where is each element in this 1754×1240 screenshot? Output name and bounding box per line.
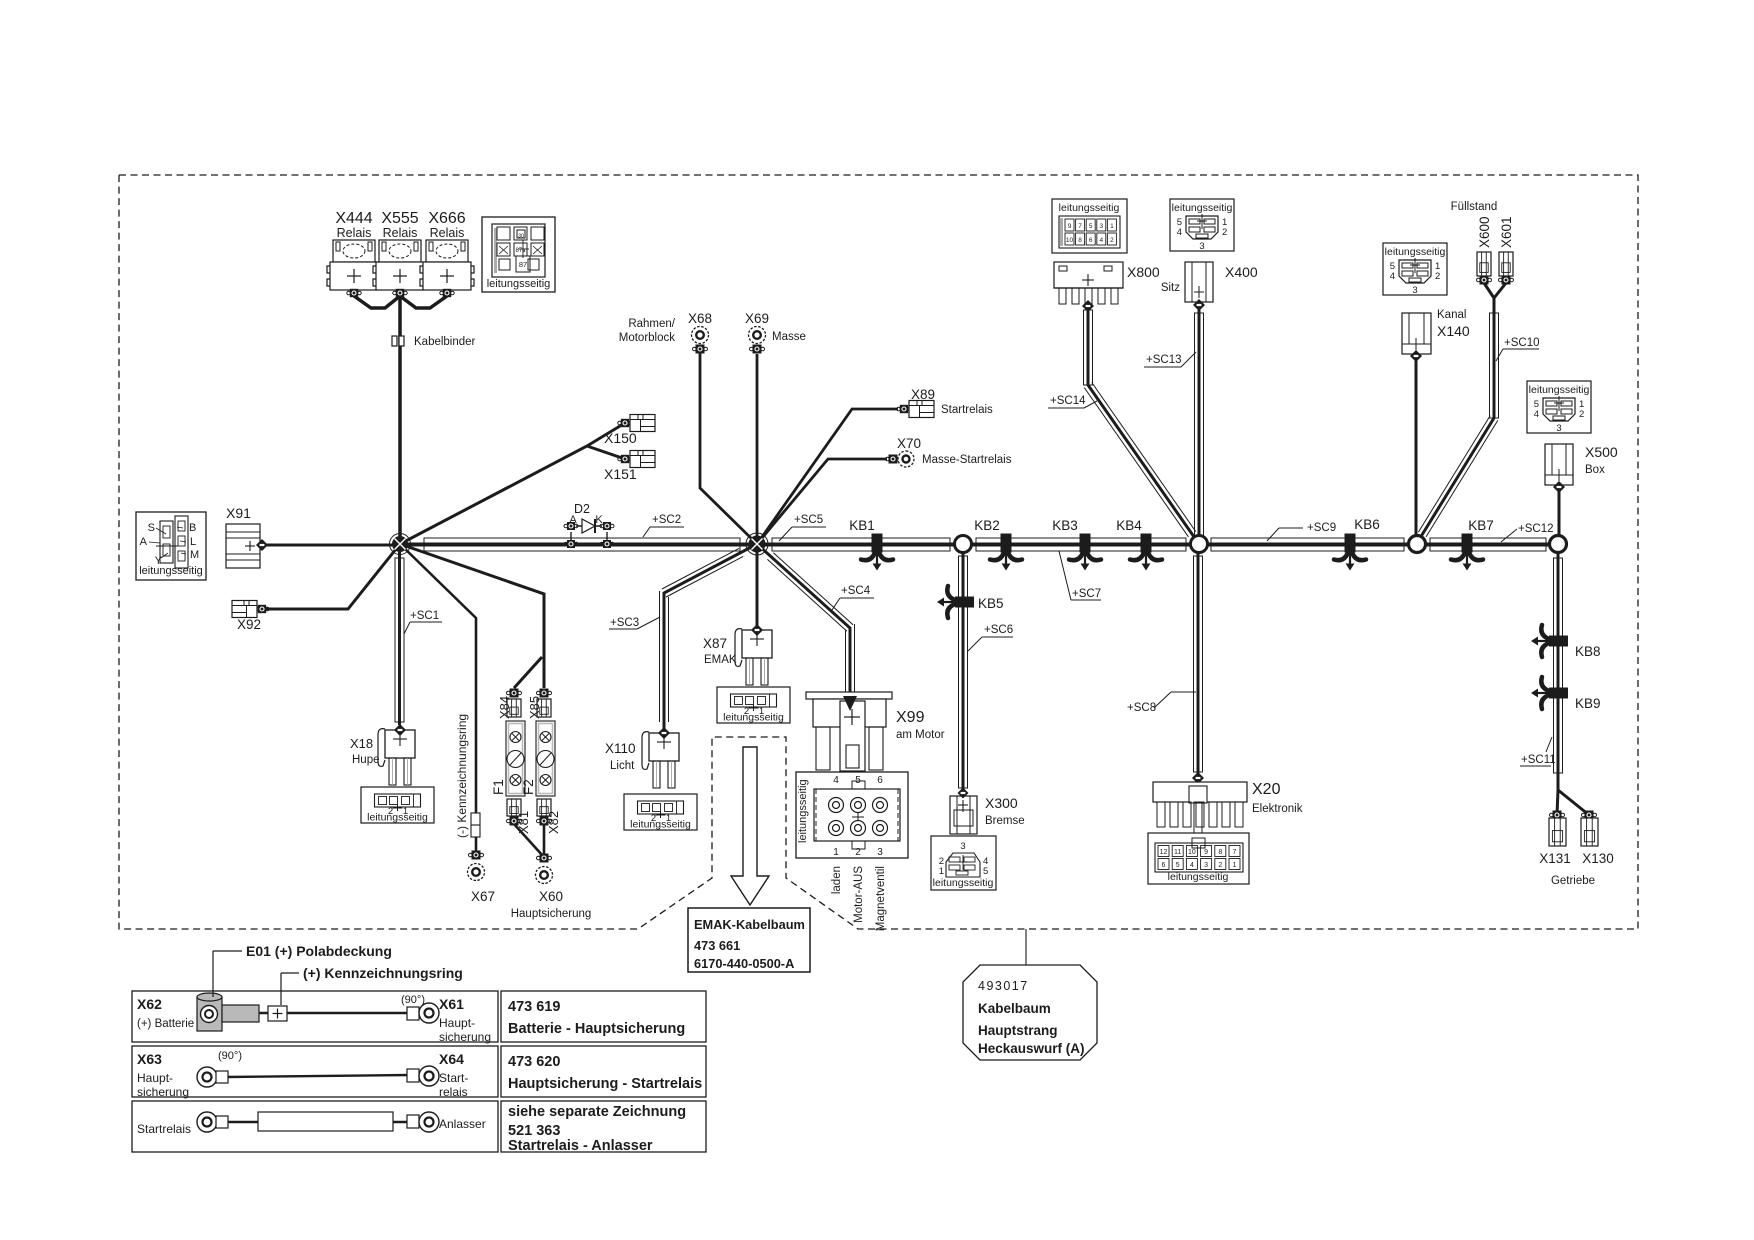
wire hub2 to X87 [756,544,759,626]
svg-text:Relais: Relais [430,226,465,240]
connector X18 Hupe [385,730,415,758]
svg-text:X20: X20 [1252,781,1281,798]
svg-text:X69: X69 [745,311,769,326]
conduit SC14 [1084,310,1093,385]
junction X60 pin [537,854,552,863]
svg-text:Relais: Relais [337,226,372,240]
node hub3 junction [1191,536,1208,553]
connector X150 [618,419,632,427]
connector X82 [537,799,551,816]
svg-text:sicherung: sicherung [439,1030,491,1044]
wire hub2 to X89 [757,409,898,544]
svg-text:6: 6 [877,775,883,786]
svg-text:leitungsseitig: leitungsseitig [1059,202,1120,214]
svg-text:laden: laden [831,866,843,894]
svg-text:L: L [190,536,196,548]
connector X500 Box [1545,444,1573,485]
svg-text:X444: X444 [335,210,372,227]
ring terminal anlasser [407,1115,419,1128]
svg-text:KB4: KB4 [1116,518,1142,533]
connector X300 Bremse [950,796,977,834]
svg-text:+SC12: +SC12 [1518,523,1553,535]
table row1 cable 473 619 [132,991,498,1042]
svg-text:Getriebe: Getriebe [1551,875,1595,887]
svg-text:Box: Box [1585,464,1605,476]
svg-text:1: 1 [1110,223,1114,230]
svg-text:+SC11: +SC11 [1521,754,1556,766]
svg-text:leitungsseitig: leitungsseitig [1385,246,1446,258]
marker Kennzeichnungsring plus [268,1006,287,1021]
conduit outline SC2 segment [424,538,740,551]
cable tie KB4 [1130,534,1162,571]
wire SC14 X800 down [1088,308,1199,544]
connector X85 [537,689,552,698]
node hub5 junction [1550,536,1567,553]
svg-text:KB3: KB3 [1052,518,1078,533]
wire branch to X84 [514,657,542,688]
junction X555 pin [393,289,407,297]
svg-text:X99: X99 [896,709,925,726]
svg-text:11: 11 [1174,849,1181,856]
cable tie KB3 [1069,534,1101,571]
svg-text:6: 6 [1089,237,1093,244]
svg-text:3: 3 [1099,223,1103,230]
conduit SC13 [1195,313,1204,537]
junction D2 anode [564,522,578,530]
pinout box X18 leitungsseitig [361,787,434,823]
pinout box X110 leitungsseitig [624,794,697,830]
svg-text:1: 1 [1233,862,1237,869]
svg-text:4: 4 [1177,227,1182,238]
svg-text:X63: X63 [137,1051,162,1067]
svg-text:X70: X70 [897,436,921,451]
svg-text:X84: X84 [497,696,512,719]
svg-text:+SC4: +SC4 [841,585,871,597]
svg-text:Licht: Licht [610,760,635,772]
wire startrelais to anlasser [228,1121,409,1123]
svg-text:X555: X555 [381,210,418,227]
svg-text:leitungsseitig: leitungsseitig [1529,384,1590,396]
conduit SC1 [395,558,404,722]
svg-text:A: A [140,536,148,548]
conduit SC4 [767,559,847,631]
svg-text:leitungsseitig: leitungsseitig [1172,202,1233,214]
junction X91 pin [256,539,268,551]
svg-text:X400: X400 [1225,264,1258,280]
svg-text:KB6: KB6 [1354,517,1380,532]
connector X81 [507,799,521,816]
svg-text:KB5: KB5 [978,596,1004,611]
svg-text:X600: X600 [1477,216,1492,248]
svg-text:leitungsseitig: leitungsseitig [487,278,551,290]
ring terminal startrelais [197,1112,217,1132]
cable tie KB2 [990,534,1022,571]
conduit outline SC12 segment [1430,538,1546,551]
cable tie KB1 [861,534,893,571]
svg-text:+SC9: +SC9 [1307,522,1336,534]
svg-text:Kabelbinder: Kabelbinder [414,336,476,348]
junction X666 pin [440,289,454,297]
connector X151 [618,455,632,463]
svg-text:2: 2 [1110,237,1114,244]
Kabelbinder marker [392,336,397,346]
wire hub2 to X68 [700,351,757,544]
connector X400 Sitz [1185,262,1213,302]
svg-text:Haupt-: Haupt- [137,1071,173,1085]
svg-text:30: 30 [518,234,524,240]
svg-text:X92: X92 [237,617,261,632]
svg-text:5: 5 [1089,223,1093,230]
svg-text:Startrelais - Anlasser: Startrelais - Anlasser [508,1138,653,1154]
ring terminal X64 [407,1069,419,1082]
svg-text:5: 5 [1176,862,1180,869]
wire SC8 hub3 to X20 [1197,544,1200,776]
svg-text:1: 1 [833,847,839,858]
ring terminal X60 [536,867,553,884]
connector X99 am Motor [806,692,892,699]
svg-text:M: M [190,549,199,561]
connector X91 [226,505,260,568]
svg-text:Haupt-: Haupt- [439,1016,475,1030]
svg-text:2: 2 [1222,227,1227,238]
svg-text:3: 3 [960,841,965,852]
svg-text:5: 5 [983,866,988,877]
svg-text:2: 2 [1435,271,1440,282]
svg-text:sicherung: sicherung [137,1085,189,1099]
svg-text:493017: 493017 [978,979,1029,993]
conduit SC11 [1554,558,1563,773]
conduit SC6 [959,556,968,788]
wire hub to X150/X151 split [400,423,625,544]
junction D2 cathode [600,522,614,530]
pinout box X500 leitungsseitig [1527,381,1591,433]
wire relay X666 to X555 [400,296,447,308]
cable tie KB6 [1334,534,1366,571]
svg-text:S: S [148,522,155,534]
svg-text:X91: X91 [226,505,251,521]
wire X63 to X64 [228,1075,409,1077]
svg-text:3: 3 [1556,423,1561,434]
svg-text:X500: X500 [1585,444,1618,460]
node main hub center [746,533,768,555]
svg-text:E01 (+) Polabdeckung: E01 (+) Polabdeckung [246,943,392,959]
cable sleeve [258,1112,393,1131]
svg-text:Startrelais: Startrelais [137,1122,191,1136]
svg-text:10: 10 [1188,849,1196,856]
svg-text:6170-440-0500-A: 6170-440-0500-A [694,956,794,971]
EMAK arrow [731,747,769,905]
wire SC3 hub2 to X110 [664,544,757,729]
connector X131 [1550,811,1565,820]
svg-text:Batterie - Hauptsicherung: Batterie - Hauptsicherung [508,1021,685,1037]
svg-text:X131: X131 [1539,851,1571,866]
wire X140 down [1415,357,1418,544]
svg-text:Sitz: Sitz [1161,282,1180,294]
wire main bus [400,543,1558,547]
node main hub left [390,534,411,555]
battery terminal X62 [197,997,222,1031]
pinout box X99 leitungsseitig 6-pin [796,772,908,858]
svg-text:(90°): (90°) [218,1050,242,1062]
svg-text:473 619: 473 619 [508,999,560,1015]
svg-text:8: 8 [1218,849,1222,856]
svg-text:521 363: 521 363 [508,1123,560,1139]
wire X82 to X60 [543,824,546,856]
svg-text:leitungsseitig: leitungsseitig [139,565,203,577]
wire SC4 hub2 to X99 [757,544,850,700]
svg-text:X110: X110 [605,741,636,756]
svg-text:3: 3 [1412,285,1417,296]
svg-text:4: 4 [1534,409,1539,420]
wire SC6 KB2 to X300 [962,544,965,790]
pinout box X300 leitungsseitig [931,836,996,890]
conduit SC10 [1490,313,1499,418]
ring terminal X63 [197,1067,217,1087]
svg-text:Hupe: Hupe [352,754,380,766]
svg-text:Masse-Startrelais: Masse-Startrelais [922,454,1012,466]
fuse F1 [506,721,525,796]
svg-text:473 620: 473 620 [508,1054,560,1070]
svg-text:4: 4 [833,775,839,786]
svg-text:Bremse: Bremse [985,815,1025,827]
wire hub to X67 (Kennzeichnungsring) [400,544,476,851]
svg-text:KB9: KB9 [1575,696,1601,711]
svg-text:+SC10: +SC10 [1504,337,1539,349]
svg-text:X18: X18 [350,736,373,751]
svg-text:6: 6 [1162,862,1166,869]
junction bus tap K [606,532,608,540]
pinout box X400 leitungsseitig [1170,199,1234,251]
svg-text:473 661: 473 661 [694,938,740,953]
svg-text:3: 3 [877,847,883,858]
svg-text:12: 12 [1160,849,1168,856]
svg-text:Hauptsicherung - Startrelais: Hauptsicherung - Startrelais [508,1076,702,1092]
node hub4 junction [1409,536,1426,553]
svg-text:+SC2: +SC2 [652,514,681,526]
harness boundary dashed frame [119,175,1638,929]
junction bus tap A [570,532,572,540]
svg-text:X60: X60 [539,889,563,904]
leader to octagon [1025,929,1027,965]
wire SC11 down to X131/X130 [1557,544,1560,790]
svg-text:Füllstand: Füllstand [1451,201,1498,213]
svg-text:3: 3 [1204,862,1208,869]
svg-text:10: 10 [1066,237,1074,244]
svg-text:Hauptsicherung: Hauptsicherung [511,908,592,920]
wire hub to X92 [262,544,400,609]
connector X130 [1582,811,1597,820]
svg-text:Elektronik: Elektronik [1252,803,1303,815]
ring terminal X67 [468,864,485,881]
svg-text:KB8: KB8 [1575,644,1601,659]
svg-text:leitungsseitig: leitungsseitig [933,877,994,889]
wire hub2 to X69 [756,354,759,544]
svg-text:leitungsseitig: leitungsseitig [723,712,784,724]
ring terminal X61 [407,1007,419,1020]
pinout box X20 leitungsseitig [1148,833,1249,884]
svg-text:siehe separate Zeichnung: siehe separate Zeichnung [508,1104,686,1120]
svg-text:Anlasser: Anlasser [439,1117,486,1131]
wire SC13 X400 down [1198,309,1201,544]
svg-text:KB1: KB1 [849,518,875,533]
svg-text:am Motor: am Motor [896,729,945,741]
svg-text:X300: X300 [985,795,1018,811]
svg-text:X87: X87 [703,636,727,651]
junction X444 pin [347,289,361,297]
cable tie KB5 [937,586,974,618]
fuse F2 [536,721,555,796]
svg-text:9: 9 [1068,223,1072,230]
svg-text:KB7: KB7 [1468,518,1494,533]
pinout box X91 [136,512,206,580]
diode D2 [576,525,602,527]
conduit outline SC5 segment [772,538,950,551]
svg-text:leitungsseitig: leitungsseitig [797,779,809,843]
svg-text:X85: X85 [527,696,542,719]
svg-text:9: 9 [1204,849,1208,856]
svg-text:3: 3 [1199,241,1204,252]
svg-text:Magnetventil: Magnetventil [875,866,887,931]
EMAK-Kabelbaum box [688,908,810,972]
cable tie KB7 [1451,534,1483,571]
cable tie KB8 [1531,625,1568,657]
conduit outline SC9 segment [1211,538,1404,551]
relay connector X444 [327,210,381,290]
wire X500 down [1558,489,1561,544]
relay connector X555 [373,210,427,290]
conduit SC3 [666,556,743,597]
connector X20 Elektronik [1192,772,1204,784]
svg-text:Kanal: Kanal [1437,309,1466,321]
pinout box X800 leitungsseitig [1052,199,1127,253]
svg-text:(+) Kennzeichnungsring: (+) Kennzeichnungsring [303,965,463,981]
svg-text:F1: F1 [491,779,506,795]
svg-text:+SC7: +SC7 [1072,588,1101,600]
node KB2 junction [955,536,972,553]
svg-text:X61: X61 [439,996,464,1012]
wire SC1 hub to X18 [398,544,401,725]
ring marker on X67 wire [471,813,480,837]
conduit SC8 [1194,556,1203,772]
pinout box X87 leitungsseitig [717,687,790,723]
wire hub to X85 [400,544,544,688]
cable tie KB9 [1531,677,1568,709]
svg-text:4: 4 [1190,862,1194,869]
svg-text:+SC14: +SC14 [1050,395,1086,407]
svg-text:X68: X68 [688,311,712,326]
svg-text:X800: X800 [1127,264,1160,280]
svg-text:X62: X62 [137,996,162,1012]
svg-text:Motor-AUS: Motor-AUS [853,866,865,923]
svg-text:leitungsseitig: leitungsseitig [630,819,691,831]
svg-text:4: 4 [1099,237,1103,244]
connector X92 [255,605,269,613]
wire relays to hub [398,296,402,544]
svg-text:Kabelbaum: Kabelbaum [978,1001,1051,1016]
svg-text:Relais: Relais [383,226,418,240]
svg-text:Masse: Masse [772,331,806,343]
svg-text:X140: X140 [1437,323,1470,339]
svg-text:(+) Batterie: (+) Batterie [137,1018,194,1030]
connector X110 Licht [649,733,679,761]
table row3 cable 521 363 [132,1101,498,1152]
svg-text:Motorblock: Motorblock [619,332,675,344]
svg-text:X601: X601 [1499,216,1514,248]
svg-text:+SC6: +SC6 [984,624,1013,636]
conduit outline SC7 segment [976,538,1186,551]
svg-text:X666: X666 [428,210,465,227]
svg-text:2: 2 [1218,862,1222,869]
connector X84 [507,689,522,698]
wire branch to X130 [1558,790,1589,815]
table row2 cable 473 620 [132,1046,498,1097]
pinout box X140 leitungsseitig [1383,243,1447,295]
svg-text:F2: F2 [521,779,536,795]
wire X81 to X60 [514,824,543,856]
wire SC10 X600/X601 [1417,283,1494,543]
svg-text:1: 1 [939,866,944,877]
svg-text:8: 8 [1078,237,1082,244]
svg-text:X67: X67 [471,889,495,904]
svg-text:X130: X130 [1582,851,1614,866]
svg-text:4: 4 [1390,271,1395,282]
relay connector X666 [420,210,474,290]
svg-text:7: 7 [1078,223,1082,230]
svg-text:EMAK-Kabelbaum: EMAK-Kabelbaum [694,917,805,932]
wire battery to X61 [259,1012,409,1014]
svg-text:leitungsseitig: leitungsseitig [367,812,428,824]
svg-text:Startrelais: Startrelais [941,404,993,416]
svg-text:leitungsseitig: leitungsseitig [1168,871,1229,883]
svg-text:X89: X89 [911,387,935,402]
octagon part label 493017 Kabelbaum Hauptstrang Heckauswurf (A) [963,965,1097,1060]
svg-text:relais: relais [439,1085,468,1099]
connector X87 EMAK [742,630,772,658]
svg-text:X150: X150 [604,430,637,446]
svg-text:Rahmen/: Rahmen/ [628,318,675,330]
svg-text:+SC13: +SC13 [1146,354,1181,366]
svg-text:+SC1: +SC1 [410,610,439,622]
svg-text:7: 7 [1233,849,1237,856]
connector X140 Kanal [1402,313,1431,354]
svg-text:X64: X64 [439,1051,464,1067]
svg-text:+SC8: +SC8 [1127,702,1156,714]
svg-text:Start-: Start- [439,1071,468,1085]
svg-text:EMAK: EMAK [704,654,737,666]
junction X67 pin [469,851,484,860]
svg-text:Hauptstrang: Hauptstrang [978,1023,1058,1038]
svg-text:+SC3: +SC3 [610,617,639,629]
svg-text:B: B [189,522,196,534]
svg-text:(90°): (90°) [401,994,425,1006]
svg-text:2: 2 [1579,409,1584,420]
wire hub2 to X70 [757,459,887,544]
svg-text:(-) Kennzeichnungsring: (-) Kennzeichnungsring [455,714,469,838]
arrowhead into X99 [843,696,857,711]
svg-text:KB2: KB2 [974,518,1000,533]
wire X91 to hub [262,544,398,547]
relay pinout box leitungsseitig [482,217,555,292]
svg-text:87: 87 [519,260,527,269]
wire relay X444 to X555 [354,296,400,308]
connector X800 [1054,262,1123,288]
svg-text:+SC5: +SC5 [794,514,823,526]
svg-text:Heckauswurf (A): Heckauswurf (A) [978,1041,1085,1056]
svg-text:X151: X151 [604,466,637,482]
